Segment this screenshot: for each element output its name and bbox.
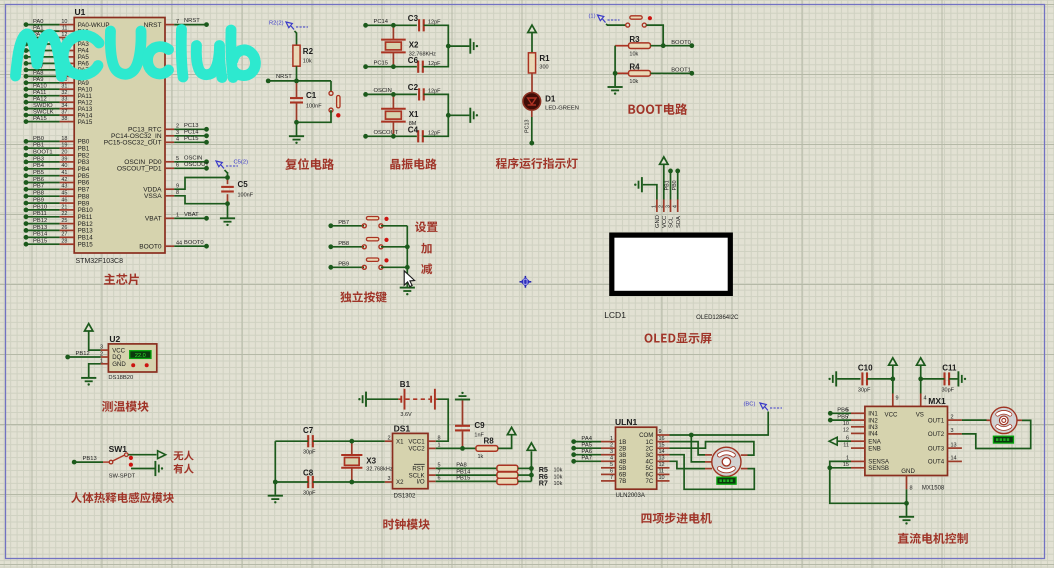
svg-text:PC13: PC13 (184, 123, 199, 129)
wire arrow to VS junction (920, 365, 922, 379)
svg-text:7: 7 (610, 475, 613, 481)
node OSCIN terminal (363, 88, 417, 97)
junction R3/button (661, 43, 666, 48)
mouse cursor (404, 271, 414, 287)
caption 复位电路 (285, 158, 334, 170)
svg-text:20: 20 (61, 150, 67, 156)
ULN1 pin 4C (13) (646, 456, 670, 466)
wire VS to C11 (921, 378, 945, 380)
svg-text:8: 8 (910, 486, 913, 492)
svg-text:ULN2003A: ULN2003A (616, 493, 645, 499)
svg-text:10k: 10k (554, 474, 563, 480)
pin PA9 (pin 30) with net PA9 wire and node (24, 77, 90, 87)
caption 测温模块 (102, 401, 149, 412)
svg-text:VBAT: VBAT (145, 216, 162, 223)
label 加 (421, 243, 431, 254)
resistor R3 (629, 35, 651, 58)
push button PB8 row (328, 238, 407, 250)
svg-text:VBAT: VBAT (184, 212, 199, 218)
svg-text:33: 33 (61, 97, 67, 103)
junction X2 top (391, 23, 396, 28)
svg-text:IN4: IN4 (868, 431, 878, 438)
wire SENSB join (830, 467, 851, 469)
wire C8 left (275, 481, 308, 483)
svg-text:PA5: PA5 (581, 442, 592, 448)
svg-text:PA11: PA11 (33, 90, 46, 96)
svg-text:C7: C7 (303, 426, 314, 435)
svg-text:2: 2 (387, 435, 390, 441)
svg-text:100nF: 100nF (238, 193, 254, 199)
wire VS down to pin4 (921, 379, 927, 407)
MCU U1 body (74, 18, 165, 254)
svg-text:4: 4 (610, 456, 613, 462)
resistor R8 (476, 437, 498, 460)
junction button row3 (405, 265, 410, 270)
wire clock left vertical (274, 441, 276, 495)
wire tag to button (606, 24, 626, 25)
junction X2 bus mid (446, 44, 451, 49)
node PB5 terminal (828, 414, 851, 422)
wire C11 to ground (949, 378, 957, 380)
svg-text:BOOT1: BOOT1 (33, 150, 53, 156)
svg-text:X2: X2 (409, 41, 419, 50)
wire ground to B1 (367, 398, 398, 400)
svg-text:PB8: PB8 (33, 191, 44, 197)
capacitor C2 (408, 83, 441, 101)
U2 temperature display (130, 351, 151, 360)
wire button to R3 node (646, 25, 663, 46)
pin PA4 (pin 14) with net PA4 wire and node (24, 45, 90, 55)
svg-text:100nF: 100nF (306, 104, 322, 110)
capacitor C7 (303, 426, 316, 456)
svg-text:B1: B1 (400, 380, 411, 389)
svg-text:VCC1: VCC1 (408, 438, 425, 445)
ground C10 (rotated left) (828, 371, 836, 386)
svg-text:PC15: PC15 (184, 136, 199, 142)
caption 直流电机控制 (898, 533, 968, 544)
svg-text:SW-SPDT: SW-SPDT (109, 473, 136, 479)
ground X1 (rotated) (470, 108, 478, 123)
svg-text:13: 13 (659, 456, 665, 462)
wire COM to supply tag (670, 412, 769, 436)
pin PA15 (pin 38) with net PA15 wire and node (24, 116, 93, 126)
push button PB9 row (328, 258, 407, 270)
node PB13 terminal (72, 456, 103, 464)
svg-text:25: 25 (61, 218, 67, 224)
svg-text:12: 12 (843, 428, 849, 434)
wire R2 to NRST node (296, 66, 298, 81)
svg-text:10: 10 (61, 19, 67, 25)
caption 晶振电路 (390, 158, 436, 169)
ground B1 (rotated left) (358, 392, 366, 407)
wire left vertical BOOT (614, 46, 616, 87)
wire tag to R2 (296, 33, 298, 46)
svg-text:VSSA: VSSA (144, 193, 162, 200)
svg-text:PB5: PB5 (837, 414, 848, 420)
svg-text:14: 14 (951, 456, 957, 462)
svg-text:32: 32 (61, 90, 67, 96)
wire ground to GND pin (643, 185, 657, 200)
MX1 pin OUT4 (14) (928, 456, 962, 466)
node NRST terminal (266, 79, 271, 84)
svg-text:SDA: SDA (676, 216, 682, 228)
node C5 bottom junction (225, 201, 230, 206)
junction COM branch (689, 433, 694, 438)
caption 独立按键 (340, 291, 386, 302)
svg-text:PB15: PB15 (78, 241, 94, 248)
svg-text:PB13: PB13 (33, 225, 47, 231)
pin OSCOUT_PD1 (6) (117, 162, 209, 173)
svg-text:10k: 10k (629, 52, 638, 58)
pin PA7 (pin 17) with net PA7 wire and node (24, 64, 90, 74)
ULN1 pin 3C (14) (646, 449, 670, 459)
svg-text:PA6: PA6 (581, 449, 592, 455)
svg-text:VCC: VCC (885, 412, 898, 419)
wire 2C to motor (670, 442, 754, 456)
wire OUT2 to motor (962, 420, 1031, 448)
ULN1 pin 4B (601, 456, 626, 466)
wire arrow to VCC junction (892, 365, 894, 379)
wire R3 to BOOT0 (651, 45, 692, 47)
wire buttons vertical to ground (406, 226, 408, 287)
MX1 pin IN3 (10) (843, 421, 879, 431)
wire R3 left lead (615, 45, 628, 47)
caption 人体热释电感应模块 (71, 492, 174, 503)
svg-text:GND: GND (112, 361, 126, 368)
switch SW1 SPDT (103, 453, 136, 479)
capacitor C9 (455, 401, 485, 449)
power arrow OLED (660, 157, 668, 164)
wire B1 to VCC1 (436, 399, 449, 441)
off-page tag C5(2) (216, 160, 248, 178)
svg-text:26: 26 (61, 225, 67, 231)
pin PA6 (pin 16) with net PA6 wire and node (24, 58, 90, 68)
svg-text:OSCIN: OSCIN (184, 155, 202, 161)
pin PA3 (pin 13) with net PA3 wire and node (24, 38, 90, 48)
svg-text:R7: R7 (539, 479, 548, 488)
svg-text:27: 27 (61, 232, 67, 238)
svg-text:43: 43 (61, 184, 67, 190)
ULN1 pin 3B (601, 449, 626, 459)
svg-text:PB14: PB14 (456, 469, 471, 475)
svg-text:C5: C5 (238, 180, 249, 189)
svg-text:1: 1 (652, 205, 658, 208)
svg-text:X3: X3 (366, 456, 376, 465)
wire arrow to VCC U2 (89, 331, 101, 350)
svg-text:31: 31 (61, 84, 67, 90)
junction R6 bus (529, 473, 534, 478)
label 无人 (174, 451, 194, 461)
svg-text:PB5: PB5 (33, 170, 44, 176)
OLED LCD1 screen (609, 233, 733, 297)
svg-text:PB14: PB14 (33, 232, 48, 238)
crystal X2 (381, 25, 436, 66)
svg-text:41: 41 (61, 170, 67, 176)
svg-text:OUT2: OUT2 (928, 431, 945, 438)
label 减 (421, 263, 432, 274)
node PC15 terminal (363, 61, 417, 70)
pin PB7 (pin 43) with net PB7 wire and node (24, 184, 90, 194)
svg-text:BOOT0: BOOT0 (139, 243, 162, 250)
wire COM to motor common (691, 435, 705, 462)
svg-text:PC15: PC15 (374, 61, 389, 67)
pin PB6 (pin 42) with net PB6 wire and node (24, 177, 90, 187)
svg-text:PB1: PB1 (665, 180, 671, 190)
svg-text:PB12: PB12 (76, 351, 90, 357)
svg-text:8: 8 (438, 435, 441, 441)
MX1 pin IN4 (12) (843, 428, 879, 438)
svg-text:X1: X1 (409, 110, 419, 119)
label 设置 (415, 221, 437, 232)
DS18B20 U2 body (108, 344, 156, 372)
svg-text:PC15-OSC32_OUT: PC15-OSC32_OUT (104, 140, 162, 147)
U2 pins VCC DQ GND (100, 345, 126, 368)
wire ground to C10 (837, 378, 860, 380)
DC motor pins (987, 419, 1023, 421)
junction X2 bottom (391, 64, 396, 69)
node PA5 terminal (571, 442, 601, 450)
svg-text:BOOT0: BOOT0 (184, 240, 204, 246)
pin PB0 (pin 18) with net PB0 wire and node (24, 136, 90, 146)
pin PB9 (pin 46) with net PB9 wire and node (24, 198, 90, 208)
wire 3C to motor (670, 455, 755, 490)
capacitor C4 (408, 126, 441, 143)
node SCL terminal (665, 169, 673, 200)
ground clock module (268, 496, 283, 504)
svg-text:46: 46 (61, 198, 67, 204)
svg-text:45: 45 (61, 191, 67, 197)
svg-text:OLED12864I2C: OLED12864I2C (696, 315, 739, 321)
svg-text:OSCOUT_PD1: OSCOUT_PD1 (117, 166, 162, 173)
stepper motor (712, 447, 741, 476)
wire R4 left lead (615, 72, 628, 74)
caption 程序运行指示灯 (496, 158, 578, 169)
caption 时钟模块 (383, 519, 429, 530)
ground C9 (rotated up) (455, 392, 470, 400)
capacitor C10 (858, 364, 873, 394)
svg-text:C11: C11 (942, 364, 957, 373)
node PC14 terminal (363, 19, 417, 28)
node OSCOUT terminal (363, 130, 417, 139)
svg-text:7C: 7C (646, 478, 654, 485)
wire SW1 to 有人 ground (131, 468, 155, 470)
svg-text:11: 11 (659, 469, 665, 475)
wire C1 to ground (296, 122, 298, 136)
ground BOOT (608, 87, 623, 95)
ULN1 pin 7B (601, 475, 626, 485)
svg-text:2: 2 (951, 414, 954, 420)
pin PB13 (pin 26) with net PB13 wire and node (24, 225, 94, 235)
junction SENSB (827, 465, 832, 470)
node PA6 terminal (571, 449, 601, 457)
power arrow VS MX1 (917, 358, 925, 365)
resistor R5 (497, 465, 563, 474)
MX1 pin OUT1 (2) (928, 414, 962, 424)
svg-text:5: 5 (610, 462, 613, 468)
wire R6 right (518, 474, 532, 476)
wire R7 right (518, 480, 532, 482)
DS1 pin VCC1 (8) (408, 435, 440, 445)
ground reset circuit (289, 136, 304, 144)
svg-text:D1: D1 (545, 95, 556, 104)
junction GND node (904, 501, 909, 506)
svg-text:GND: GND (655, 215, 661, 228)
svg-text:PB12: PB12 (33, 218, 47, 224)
junction R5 bus (529, 466, 534, 471)
svg-text:(1): (1) (589, 14, 596, 20)
ULN1 pin 1B (601, 436, 626, 446)
U2 red indicator dots (131, 363, 149, 367)
svg-text:34: 34 (61, 103, 67, 109)
svg-text:14: 14 (659, 449, 665, 455)
svg-text:4: 4 (673, 205, 679, 208)
wire C8 right to X2 node (313, 481, 385, 483)
wire OUT1 to motor (962, 419, 987, 421)
wire node to button (330, 81, 332, 92)
svg-text:9: 9 (659, 429, 662, 435)
capacitor C8 (303, 469, 316, 497)
svg-text:3: 3 (951, 428, 954, 434)
svg-text:SW1: SW1 (109, 444, 128, 454)
push button BOOT (626, 16, 652, 27)
wire C5 bottom to ground (227, 204, 229, 218)
wire 1C to motor (670, 442, 706, 455)
stepper motor display (717, 477, 736, 484)
svg-text:19: 19 (61, 143, 67, 149)
svg-text:15: 15 (659, 442, 665, 448)
svg-text:3: 3 (387, 476, 390, 482)
svg-text:38: 38 (61, 116, 67, 122)
caption BOOT电路 (628, 103, 687, 115)
ULN1 pin 6C (11) (646, 469, 670, 479)
wire bus to ground X1 (448, 114, 469, 116)
pin VSSA (8) wire to C5 bottom node (144, 190, 227, 204)
svg-text:3.6V: 3.6V (400, 412, 412, 418)
junction R4 left (613, 71, 618, 76)
svg-text:18: 18 (61, 136, 67, 142)
svg-text:PB7: PB7 (338, 220, 349, 226)
svg-text:VCC2: VCC2 (408, 446, 425, 453)
node BOOT1 terminal (671, 68, 694, 76)
svg-text:3: 3 (610, 449, 613, 455)
ground U2 (81, 378, 96, 386)
origin marker crosshair (520, 276, 532, 288)
off-page tag (1) (589, 14, 620, 23)
svg-text:21: 21 (61, 204, 67, 210)
svg-text:C2: C2 (408, 83, 419, 92)
node C5 top junction (225, 175, 230, 180)
pin VBAT (1) (145, 212, 209, 223)
power arrow pullups (527, 443, 535, 450)
wire VCC down to pin9 (893, 379, 899, 407)
wire C3 to bus (423, 25, 449, 66)
junction button row2 (405, 244, 410, 249)
svg-text:C9: C9 (474, 421, 485, 430)
svg-text:DS1: DS1 (394, 424, 411, 434)
node PB6 terminal (828, 408, 851, 416)
resistor R7 (497, 478, 563, 487)
svg-text:VS: VS (916, 412, 924, 419)
pin PA11 (pin 32) with net PA11 wire and node (24, 90, 93, 100)
svg-text:PB0: PB0 (33, 136, 44, 142)
svg-text:30pF: 30pF (303, 491, 316, 497)
DS1 pin X2 (3) (385, 476, 404, 486)
svg-text:PB7: PB7 (33, 184, 44, 190)
pin PC14-OSC32_IN (3) (111, 129, 209, 140)
wire button to C1 bottom (297, 110, 332, 122)
ULN1 pin 5B (601, 462, 626, 472)
svg-text:PB6: PB6 (33, 177, 44, 183)
svg-text:I/O: I/O (416, 479, 424, 486)
ULN1 pin 5C (12) (646, 462, 670, 472)
junction X1 bottom (391, 134, 396, 139)
wire R4 to BOOT1 (651, 72, 692, 74)
DS1 pin RST (5) (412, 463, 440, 473)
stepper motor pins (705, 455, 748, 469)
ground buttons (400, 288, 415, 296)
svg-text:PA8: PA8 (33, 71, 44, 77)
svg-text:X2: X2 (396, 479, 404, 486)
ground under C5 (220, 218, 235, 226)
wire SW1 to 无人 arrow (128, 454, 156, 456)
MX1 GND pin 8 (907, 476, 913, 504)
wire pullup vertical (530, 451, 532, 481)
svg-text:C5(2): C5(2) (234, 160, 249, 166)
svg-text:PB6: PB6 (837, 408, 848, 414)
svg-text:2: 2 (659, 205, 665, 208)
arrow terminal 无人 (158, 451, 166, 459)
wire bus to ground X2 (448, 45, 469, 47)
junction R2/C1 (294, 79, 299, 84)
pin PC13_RTC (2) (128, 123, 209, 134)
svg-text:3: 3 (100, 345, 103, 351)
junction C8 left (273, 480, 278, 485)
wire R5 right (518, 467, 532, 469)
svg-text:PA15: PA15 (33, 116, 47, 122)
pin PB2 (pin 20) with net BOOT1 wire and node (24, 150, 90, 160)
pin PB8 (pin 45) with net PB8 wire and node (24, 191, 90, 201)
svg-text:7B: 7B (619, 478, 626, 485)
svg-text:22: 22 (61, 211, 67, 217)
svg-text:PA0: PA0 (33, 19, 44, 25)
push button PB7 row (328, 217, 407, 229)
capacitor C11 (942, 364, 957, 394)
svg-text:C4: C4 (408, 126, 419, 135)
off-page tag R2(2) (269, 21, 308, 34)
svg-text:(BC): (BC) (744, 402, 756, 408)
svg-text:PB9: PB9 (33, 198, 44, 204)
svg-text:C1: C1 (306, 91, 317, 100)
ground X2 (rotated) (470, 39, 478, 54)
pin PB14 (pin 27) with net PB14 wire and node (24, 232, 94, 242)
capacitor C6 (408, 56, 441, 73)
pin PA1 (pin 11) with net PA1 wire and node (24, 26, 90, 36)
MX1 pin ENB (11) (843, 442, 881, 452)
MX1508 MX1 body (865, 406, 948, 475)
pin OSCIN_PD0 (5) (124, 155, 209, 166)
svg-text:C6: C6 (408, 56, 419, 65)
svg-text:STM32F103C8: STM32F103C8 (76, 258, 124, 265)
node BOOT0 terminal (671, 40, 694, 48)
ULN1 pin 1C (16) (646, 436, 670, 446)
svg-text:NRST: NRST (184, 18, 200, 24)
svg-text:R4: R4 (629, 63, 640, 72)
DC motor (991, 407, 1017, 433)
power arrow R8 (507, 427, 515, 434)
svg-text:32.768kHz: 32.768kHz (366, 467, 393, 473)
svg-text:NRST: NRST (276, 74, 292, 80)
node PB12 terminal (65, 351, 100, 359)
